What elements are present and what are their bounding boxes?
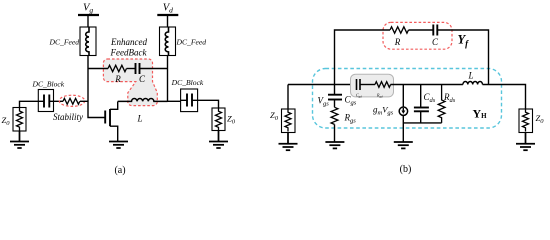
- Y_f dashed box: [383, 22, 452, 49]
- inductor in DC_Feed (gate): [86, 27, 89, 56]
- wire feedback top right: [437, 30, 488, 85]
- Y_H dashed region: [313, 69, 502, 129]
- Cgd Rgd gray box: [351, 74, 394, 97]
- source termination Z0 box (b): [282, 109, 296, 133]
- input termination Z0 box: [13, 108, 26, 132]
- capacitor in DC_Block (output): [187, 94, 192, 107]
- wire Cgd to Rgd: [360, 84, 375, 86]
- inductor in DC_Feed (drain): [165, 27, 168, 56]
- wire feedback top left: [335, 30, 391, 85]
- wire Vd to DC_Feed: [167, 15, 169, 27]
- wire Rgs to ground: [334, 124, 336, 142]
- DC_Feed box L2 (drain bias): [160, 27, 176, 56]
- wire R to C (Yf): [409, 29, 434, 31]
- svg-text:R: R: [394, 37, 401, 47]
- wire Cds branch: [420, 85, 422, 123]
- wire drain row to DC_Block (output): [168, 100, 181, 102]
- resistor Z0 (input): [17, 108, 23, 131]
- wire source lead: [110, 126, 118, 141]
- resistor Rds: [438, 85, 445, 123]
- capacitor Cgd: [357, 79, 361, 90]
- svg-text:DC_Feed: DC_Feed: [48, 38, 79, 47]
- current source gmVgs: [399, 107, 407, 115]
- resistor Rgs: [331, 107, 338, 124]
- svg-text:Cds: Cds: [424, 92, 436, 104]
- svg-text:Rgs: Rgs: [344, 113, 357, 125]
- capacitor C (feedback): [136, 63, 140, 74]
- svg-text:Z0: Z0: [227, 114, 236, 126]
- wire feedback row left: [88, 68, 108, 70]
- resistor R (feedback): [108, 65, 126, 71]
- wire Vd rail down: [167, 56, 169, 102]
- svg-text:Z0: Z0: [536, 113, 545, 125]
- DC_Feed box L1 (gate bias): [80, 27, 96, 56]
- wire R to C: [127, 68, 136, 70]
- capacitor Cds: [414, 108, 429, 112]
- capacitor C (Yf): [433, 25, 437, 36]
- svg-text:R: R: [114, 74, 121, 84]
- node Vd supply bar: [157, 14, 178, 16]
- resistor Z0 (output): [216, 108, 222, 131]
- wire drain lead: [110, 102, 118, 110]
- wire Vg to DC_Feed: [87, 15, 89, 27]
- svg-text:Z0: Z0: [270, 110, 279, 122]
- svg-text:C: C: [432, 37, 439, 47]
- DC_Block box (input): [38, 90, 53, 112]
- svg-text:L: L: [467, 71, 473, 81]
- svg-text:C: C: [139, 74, 146, 84]
- wire C to Vd rail: [140, 68, 168, 70]
- svg-text:Vg: Vg: [83, 2, 93, 14]
- svg-text:YH: YH: [473, 107, 488, 121]
- wire output row: [483, 85, 526, 110]
- wire gate rail: [88, 56, 105, 118]
- ground (transistor): [109, 142, 128, 149]
- svg-text:Stability: Stability: [53, 112, 83, 122]
- transistor M1: [105, 109, 110, 126]
- feedback network shaded region: [103, 59, 157, 106]
- ground (output Z0): [209, 131, 228, 149]
- wire main row (gate side): [288, 84, 357, 86]
- inductor L (drain): [118, 99, 168, 102]
- wire Z0 to DC_Block: [20, 101, 39, 107]
- resistor R (Yf): [390, 27, 408, 33]
- wire input branch: [334, 85, 336, 108]
- svg-text:Rds: Rds: [443, 92, 456, 104]
- capacitor in DC_Block (input): [44, 95, 49, 108]
- svg-text:DC_Block: DC_Block: [171, 78, 204, 87]
- svg-text:Yf: Yf: [458, 33, 470, 49]
- DC_Block box (output): [181, 89, 198, 112]
- svg-text:gmVgs: gmVgs: [373, 105, 394, 117]
- output termination Z0 box: [212, 108, 225, 131]
- wire output to Z0: [198, 100, 219, 108]
- resistor Rgd: [375, 82, 391, 88]
- svg-text:Vd: Vd: [163, 2, 173, 14]
- ground (Rgs): [325, 142, 344, 148]
- node Vg supply bar: [78, 14, 99, 16]
- svg-text:Enhanced: Enhanced: [110, 37, 147, 47]
- wire bottom rail Cds/Rds: [403, 122, 441, 124]
- svg-text:FeedBack: FeedBack: [110, 48, 148, 58]
- load termination Z0 box (b): [519, 109, 533, 133]
- wire stability to gate rail: [80, 100, 88, 102]
- inductor L (b): [463, 81, 483, 84]
- capacitor Cgs: [328, 95, 342, 100]
- resistor stability: [63, 98, 80, 104]
- wire DC_Block to stability resistor: [54, 100, 64, 102]
- left termination wire corner: [287, 85, 289, 110]
- wire main row (drain side): [391, 84, 463, 86]
- resistor Z0 (b load): [523, 109, 529, 132]
- stability ellipse: [59, 95, 85, 106]
- svg-text:L: L: [136, 114, 142, 124]
- svg-text:Z0: Z0: [2, 115, 11, 127]
- svg-text:(b): (b): [400, 164, 412, 175]
- svg-text:(a): (a): [114, 165, 125, 176]
- ground (current source): [394, 142, 413, 148]
- svg-text:DC_Feed: DC_Feed: [176, 38, 207, 47]
- svg-text:Vgs: Vgs: [318, 96, 330, 108]
- ground (b load Z0): [516, 133, 535, 151]
- svg-text:DC_Block: DC_Block: [31, 80, 64, 89]
- ground (input Z0): [10, 131, 29, 148]
- resistor Z0 (b source): [285, 109, 291, 132]
- ground (b source Z0): [279, 133, 298, 151]
